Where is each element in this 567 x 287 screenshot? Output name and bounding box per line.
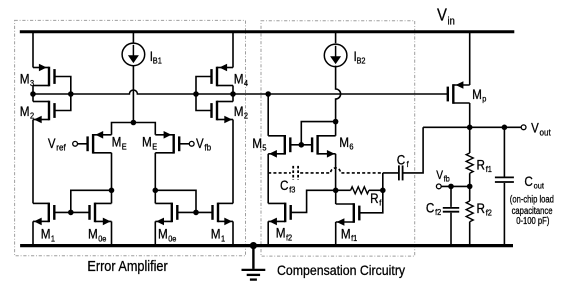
- svg-text:M: M: [142, 134, 152, 150]
- node: fb / Rf1 / Rf2 junction: [467, 184, 473, 190]
- label Rf2: [477, 200, 493, 218]
- wire: Vin to IB1: [132, 32, 134, 43]
- wire: M1/M0e left gates: [54, 211, 89, 213]
- svg-text:V: V: [48, 136, 56, 151]
- wire: M5 drain to error-amp output: [267, 94, 269, 136]
- label Cf: [397, 151, 410, 169]
- wire: M4 drain to M2: [232, 86, 234, 102]
- node: IB2 / M6 drain junction: [333, 119, 339, 125]
- transistor ME (left, Vref input): [88, 131, 112, 154]
- transistor M5: [268, 135, 290, 158]
- current source IB1: [122, 43, 145, 66]
- node: M4/M2 gate junction: [193, 91, 199, 97]
- label M6: [339, 134, 354, 152]
- svg-text:C: C: [524, 173, 532, 189]
- capacitor Cout: [495, 176, 514, 178]
- node: Rf right junction: [380, 188, 386, 194]
- wire: Rf leads: [336, 189, 351, 191]
- label M2 left: [20, 103, 35, 121]
- svg-text:C: C: [280, 177, 288, 193]
- label M3: [20, 70, 35, 88]
- wire: Cf2 top lead: [450, 186, 452, 207]
- transistor M1 (left): [33, 203, 54, 226]
- wire: dashed feedforward (hops over M6 source wire): [268, 172, 291, 174]
- capacitor Cf: [398, 165, 400, 180]
- wire: M5/M6 gates: [290, 144, 312, 146]
- label M1 left: [41, 226, 56, 244]
- svg-text:M: M: [41, 226, 51, 242]
- node: right gate junction: [193, 210, 199, 216]
- resistor Rf: [351, 187, 369, 194]
- transistor M1 (right): [213, 203, 234, 226]
- current source IB2: [324, 44, 347, 67]
- wire: Mf2 source to ground: [267, 221, 269, 245]
- label Vout: [531, 121, 551, 138]
- wire: ME right gate: [179, 143, 189, 145]
- wire: M5 source down to Mf2: [267, 154, 269, 204]
- wire: Mf1 gate to Rf right node: [359, 190, 383, 213]
- transistor M2 (right cascode): [212, 101, 234, 124]
- svg-text:M: M: [234, 70, 244, 86]
- terminal Vfb (output tap): [436, 184, 441, 189]
- wire: M6 source down to Rf node: [335, 154, 337, 191]
- svg-text:E: E: [122, 142, 127, 152]
- label M5: [252, 135, 267, 153]
- label Mf1: [341, 226, 358, 244]
- svg-text:M: M: [112, 134, 122, 150]
- wire: M4 gate: [196, 77, 212, 95]
- label Vin: [437, 5, 455, 28]
- svg-text:M: M: [252, 135, 262, 151]
- label Vfb input: [196, 136, 211, 153]
- svg-text:M: M: [472, 86, 482, 102]
- Vin power rail: [20, 30, 515, 33]
- label Cf2: [426, 199, 442, 217]
- svg-text:M: M: [276, 225, 286, 241]
- svg-text:fb: fb: [204, 142, 211, 153]
- node: M3 drain junction: [30, 91, 36, 97]
- wire: Rf1 to fb node: [469, 173, 471, 186]
- wire: Rf2 top lead: [469, 186, 471, 201]
- wire: Mf2 gate to Rf left node: [291, 190, 336, 212]
- svg-text:f2: f2: [486, 208, 493, 218]
- wire: M2 to M1 drain: [232, 120, 234, 204]
- resistor Rf1: [466, 153, 473, 173]
- svg-text:2: 2: [30, 111, 35, 121]
- svg-text:M: M: [20, 70, 30, 86]
- wire: tail node horizontal: [112, 123, 156, 135]
- ground junction dot: [250, 242, 257, 249]
- svg-text:M: M: [234, 103, 244, 119]
- label M1 right: [211, 226, 226, 244]
- label Cf3: [280, 177, 296, 195]
- transistor Mp (pass device): [448, 81, 470, 104]
- wire: left diode connection: [71, 190, 112, 212]
- svg-text:C: C: [426, 199, 434, 215]
- wire: M0e left source to ground: [111, 221, 113, 245]
- svg-text:0-100 pF): 0-100 pF): [516, 216, 549, 227]
- wire: output line: [423, 126, 521, 128]
- capacitor Cf2: [443, 207, 459, 209]
- transistor M0e (left): [90, 203, 112, 226]
- svg-text:f1: f1: [351, 234, 358, 244]
- wire: Mf1 drain up to Rf left node: [335, 190, 337, 204]
- wire: M1 source to ground: [232, 221, 234, 245]
- dashed box: Error Amplifier block: [15, 20, 246, 255]
- svg-text:M: M: [339, 134, 349, 150]
- wire: Cout bottom to ground: [503, 183, 505, 246]
- wire: M0e/M1 right gates: [177, 211, 212, 213]
- label M0e left: [88, 226, 107, 244]
- wire: M0e right source to ground: [154, 221, 156, 245]
- svg-text:2: 2: [244, 111, 249, 121]
- node: M5 drain tap: [265, 91, 271, 97]
- resistor Rf2: [466, 201, 473, 222]
- label IB1: [150, 48, 163, 66]
- wire: to Cf left plate: [383, 172, 399, 174]
- svg-text:M: M: [20, 103, 30, 119]
- wire: Cf right plate to output node: [403, 127, 423, 173]
- transistor M0e (right): [155, 203, 177, 226]
- wire: Vin to IB2: [335, 32, 337, 43]
- label Cout: [524, 173, 544, 191]
- label Mp: [472, 86, 487, 104]
- svg-text:(on-chip load: (on-chip load: [510, 194, 554, 205]
- label M2 right: [234, 103, 249, 121]
- svg-text:p: p: [482, 94, 487, 104]
- node: M5/M6 gate junction: [299, 142, 305, 148]
- wire: Vin to Mp source: [469, 32, 471, 85]
- node: left mirror drain junction: [109, 188, 115, 194]
- node: M4 drain junction: [230, 91, 236, 97]
- svg-text:f: f: [407, 160, 410, 170]
- svg-text:R: R: [370, 190, 378, 206]
- svg-text:f2: f2: [286, 233, 293, 243]
- transistor ME (right, Vfb input): [155, 131, 179, 154]
- wire: fb horizontal: [441, 185, 470, 187]
- svg-text:out: out: [540, 127, 552, 138]
- svg-text:Error Amplifier: Error Amplifier: [87, 259, 167, 275]
- wire: M2 left gate: [55, 94, 71, 111]
- svg-text:B1: B1: [153, 56, 163, 66]
- svg-text:V: V: [437, 5, 447, 24]
- svg-text:B2: B2: [357, 56, 367, 66]
- wire: IB1 to diff-pair tail: [132, 66, 134, 123]
- wire: Cf2 bottom to ground: [450, 213, 452, 246]
- svg-text:fb: fb: [444, 174, 451, 184]
- wire: M3 gate: [55, 77, 71, 95]
- wire: M2 to M1 drain: [32, 120, 34, 204]
- wire: gate node up to IB2 node: [301, 122, 335, 145]
- svg-text:M: M: [341, 226, 351, 242]
- transistor Mf1: [336, 203, 360, 226]
- transistor M2 (left cascode): [33, 101, 55, 124]
- ground rail: [20, 244, 513, 247]
- dashed box: Compensation Circuitry block: [261, 21, 415, 256]
- svg-text:Compensation Circuitry: Compensation Circuitry: [277, 263, 406, 279]
- svg-text:V: V: [196, 136, 204, 151]
- wire: Vin to M4 source: [232, 32, 234, 68]
- svg-text:R: R: [477, 156, 485, 172]
- wire: ME left drain to mirror: [111, 153, 113, 191]
- wire: Rf right node up to Cf: [382, 173, 384, 190]
- label ME right: [142, 134, 158, 152]
- label Vref: [48, 136, 66, 153]
- svg-text:M: M: [211, 226, 221, 242]
- transistor M4: [212, 64, 234, 87]
- label IB2: [354, 48, 367, 66]
- wire: ME right drain to mirror: [154, 153, 156, 191]
- svg-text:V: V: [531, 121, 539, 136]
- ground symbol: [242, 246, 266, 280]
- wire: M6 drain up: [335, 122, 337, 136]
- terminal Vref: [73, 141, 78, 146]
- terminal Vfb (error amp input): [189, 141, 194, 146]
- svg-text:E: E: [152, 142, 157, 152]
- terminal Vout: [521, 125, 526, 130]
- svg-text:0e: 0e: [168, 234, 177, 244]
- label Rf1: [477, 156, 493, 174]
- node: left gate junction: [68, 210, 74, 216]
- wire: Rf2 to ground: [469, 222, 471, 246]
- wire: M0e left drain: [111, 190, 113, 203]
- transistor M6: [312, 135, 336, 158]
- wire: M2 right gate: [196, 94, 212, 111]
- svg-text:C: C: [397, 151, 405, 167]
- svg-text:3: 3: [30, 78, 35, 88]
- label Mf2: [276, 225, 293, 243]
- node: Cf2 tap: [448, 184, 454, 190]
- capacitor Cf3 (dashed): [292, 166, 294, 180]
- node: tail junction: [131, 120, 137, 126]
- svg-text:1: 1: [51, 234, 56, 244]
- wire: Rf1 top lead: [469, 127, 471, 153]
- svg-text:M: M: [88, 226, 98, 242]
- svg-text:5: 5: [262, 143, 267, 153]
- wire: error-amp output line to Mp gate (hops over IB1 wire): [33, 90, 448, 94]
- node: M3/M2 gate junction: [68, 91, 74, 97]
- transistor M3: [33, 64, 55, 87]
- svg-text:R: R: [477, 200, 485, 216]
- svg-text:f1: f1: [486, 165, 493, 175]
- wire: right diode connection: [155, 190, 196, 212]
- label ME left: [112, 134, 128, 152]
- note: on-chip load capacitance: [510, 194, 554, 227]
- svg-text:out: out: [534, 181, 545, 191]
- node: right mirror drain junction: [153, 188, 159, 194]
- node: Rf left junction: [333, 188, 339, 194]
- svg-text:1: 1: [221, 234, 226, 244]
- wire: Cout top lead: [503, 127, 505, 176]
- wire: M3 drain to M2: [32, 86, 34, 102]
- wire: ME left gate: [78, 143, 88, 145]
- svg-text:f: f: [379, 198, 382, 208]
- wire: Vin to M3 source: [32, 32, 34, 68]
- svg-text:6: 6: [349, 142, 354, 152]
- node: Cout tap: [502, 125, 508, 131]
- svg-text:f2: f2: [435, 207, 442, 217]
- svg-text:0e: 0e: [98, 234, 107, 244]
- wire: Mp drain to output: [469, 103, 471, 127]
- svg-text:4: 4: [244, 78, 249, 88]
- wire: Mf1 source to ground: [335, 222, 337, 246]
- svg-text:M: M: [158, 226, 168, 242]
- svg-text:in: in: [448, 16, 455, 28]
- svg-text:f3: f3: [289, 185, 296, 195]
- node: output / Rf1 junction: [467, 125, 473, 131]
- label M0e right: [158, 226, 177, 244]
- svg-text:ref: ref: [56, 142, 66, 153]
- label Vfb tap: [436, 170, 450, 184]
- label Rf: [370, 190, 382, 208]
- label M4: [234, 70, 249, 88]
- wire: M1 source to ground: [32, 221, 34, 245]
- wire: IB2 down (hops over EA line): [336, 66, 341, 122]
- svg-text:V: V: [436, 170, 443, 183]
- wire: M0e right drain: [154, 190, 156, 203]
- transistor Mf2: [268, 203, 291, 226]
